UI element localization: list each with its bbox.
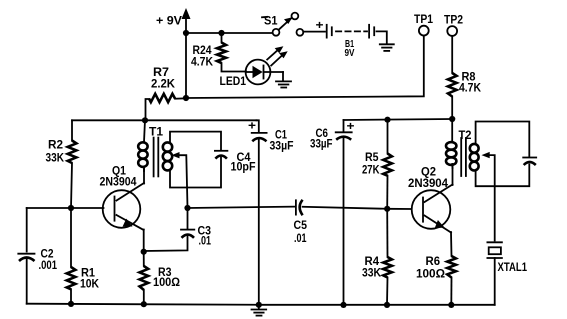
T2 tap arrow and wire down to crystal xyxy=(482,152,495,241)
battery B1 9V xyxy=(316,18,387,59)
transformer T2 xyxy=(446,119,479,176)
wire Q1 base line xyxy=(27,207,104,209)
test point TP2 xyxy=(444,13,463,36)
node R3 bottom xyxy=(141,301,147,307)
capacitor C5 .01 xyxy=(294,200,308,245)
ground (battery) xyxy=(380,44,394,51)
transformer T1 xyxy=(138,120,172,176)
wire right supply rail xyxy=(344,119,453,120)
wire R7 junction to TP1 xyxy=(186,36,424,98)
svg-text:33K: 33K xyxy=(362,265,381,279)
node C3/C5/tap xyxy=(184,205,190,211)
svg-text:4.7K: 4.7K xyxy=(191,54,213,68)
wire Q2 base xyxy=(387,208,411,210)
wire left supply rail xyxy=(72,119,257,121)
svg-text:2N3904: 2N3904 xyxy=(100,174,137,188)
node Q2 base/R5/R4 xyxy=(384,206,390,212)
svg-text:.01: .01 xyxy=(294,231,307,245)
svg-text:10pF: 10pF xyxy=(231,160,256,174)
svg-text:27K: 27K xyxy=(362,163,380,177)
node R5 top xyxy=(384,117,390,123)
svg-text:+: + xyxy=(248,119,256,133)
resistor R2 xyxy=(46,120,77,208)
resistor R6 xyxy=(416,254,456,305)
resistor R1 xyxy=(67,208,100,304)
svg-text:9V: 9V xyxy=(345,47,355,59)
node R1 bottom xyxy=(68,301,74,307)
wire S1 to battery xyxy=(303,31,325,33)
resistor R4 xyxy=(362,209,392,305)
resistor R7 xyxy=(146,65,187,120)
node R4 bottom xyxy=(384,302,390,308)
transistor Q2 2N3904 xyxy=(408,165,453,233)
wire Q2 emitter down xyxy=(450,232,453,256)
svg-text:TP1: TP1 xyxy=(414,12,433,26)
svg-text:4.7K: 4.7K xyxy=(459,80,481,94)
svg-text:33µF: 33µF xyxy=(270,139,294,153)
resistor R8 xyxy=(448,36,481,119)
node emitter/C3 junction xyxy=(141,249,147,255)
power +9V symbol xyxy=(156,8,191,33)
LED LED1 xyxy=(220,60,284,88)
svg-text:2N3904: 2N3904 xyxy=(408,176,448,190)
node at +9V arrow xyxy=(183,30,189,36)
node T1/R7 on rail xyxy=(142,117,148,123)
svg-text:+ 9V: + 9V xyxy=(156,14,182,28)
LED light arrows xyxy=(267,46,288,65)
svg-text:S1: S1 xyxy=(264,14,278,28)
svg-text:XTAL1: XTAL1 xyxy=(498,260,528,274)
resistor R5 xyxy=(362,120,392,209)
node C6 bottom xyxy=(340,302,346,308)
wire bottom ground rail xyxy=(27,304,495,305)
wire C5 right lead to Q2 base xyxy=(303,207,388,209)
svg-text:2.2K: 2.2K xyxy=(151,77,175,91)
switch S1 xyxy=(262,13,303,36)
svg-text:TP2: TP2 xyxy=(444,13,463,27)
resistor R24 xyxy=(191,33,246,72)
capacitor C6 33uF xyxy=(310,119,355,305)
svg-text:33µF: 33µF xyxy=(310,137,333,151)
wire Q2 collector to T2 xyxy=(452,165,454,185)
wire Q1 collector to T1 xyxy=(143,169,145,184)
crystal XTAL1 xyxy=(487,242,527,304)
svg-text:33K: 33K xyxy=(46,151,65,165)
wire C5 left lead xyxy=(188,207,295,208)
ground (LED) xyxy=(276,72,291,88)
node base/R2/R1 xyxy=(68,205,74,211)
svg-text:C5: C5 xyxy=(294,218,308,232)
svg-text:100Ω: 100Ω xyxy=(416,267,445,281)
wire +9V down to R7 junction xyxy=(185,33,187,98)
wire top rail +9V to S1 xyxy=(186,32,273,34)
transistor Q1 2N3904 xyxy=(100,164,145,230)
svg-text:.01: .01 xyxy=(199,233,212,247)
tank rectangle T2 with capacitor (unlabeled) xyxy=(476,122,537,187)
node R24 top xyxy=(218,30,224,36)
svg-text:100Ω: 100Ω xyxy=(153,275,180,289)
node R7/TP1 junction xyxy=(183,95,189,101)
svg-text:LED1: LED1 xyxy=(220,74,247,88)
test point TP1 xyxy=(414,12,433,36)
capacitor C2 xyxy=(18,208,57,304)
T1 tap arrow and wire to C3/C5 node xyxy=(171,152,187,208)
ground (bottom rail) xyxy=(252,305,267,316)
svg-text:T1: T1 xyxy=(149,124,163,138)
capacitor C3 .01 xyxy=(144,208,212,252)
tank rectangle T1 with capacitor C4 xyxy=(170,132,256,188)
resistor R3 xyxy=(140,252,181,305)
svg-text:+: + xyxy=(316,18,324,32)
node C1/ground bottom xyxy=(256,302,262,308)
svg-text:+: + xyxy=(347,119,355,133)
capacitor C1 33uF xyxy=(248,119,294,306)
node T2/R8 xyxy=(449,116,455,122)
node R6 bottom xyxy=(448,302,454,308)
svg-text:.001: .001 xyxy=(39,258,58,272)
svg-text:T2: T2 xyxy=(459,128,472,142)
svg-text:10K: 10K xyxy=(80,276,99,290)
wire Q1 emitter down xyxy=(143,230,145,252)
